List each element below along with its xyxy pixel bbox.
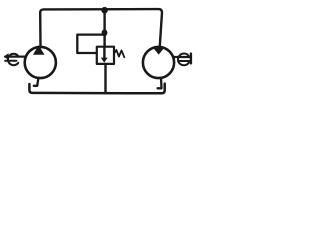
relief valve spring — [114, 50, 124, 57]
motor M1 rotation arc — [178, 53, 189, 65]
motor M1 shaft line — [173, 57, 191, 61]
wire relief valve riser — [103, 10, 105, 48]
wire top pressure line — [40, 9, 162, 47]
wire bottom return line — [29, 84, 164, 94]
node junction dot at top line — [101, 7, 108, 14]
wire valve to tank line — [104, 64, 106, 93]
pump P1 drain stub — [34, 78, 39, 86]
motor M1 inlet triangle — [153, 48, 164, 55]
relief valve flow arrow — [101, 47, 108, 63]
motor M1 circle — [143, 47, 174, 78]
node junction dot pilot takeoff — [102, 29, 108, 36]
pump P1 shaft arrowhead — [4, 53, 9, 60]
pump P1 rotation arc — [8, 54, 18, 65]
relief valve V1 body — [97, 47, 114, 64]
pump P1 outlet triangle — [33, 45, 45, 55]
motor M1 drain stub — [158, 78, 162, 88]
wire pilot bypass loop — [77, 35, 104, 53]
pump P1 shaft line — [5, 57, 26, 61]
pump P1 circle — [25, 47, 56, 78]
motor M1 shaft end bar — [190, 54, 192, 64]
